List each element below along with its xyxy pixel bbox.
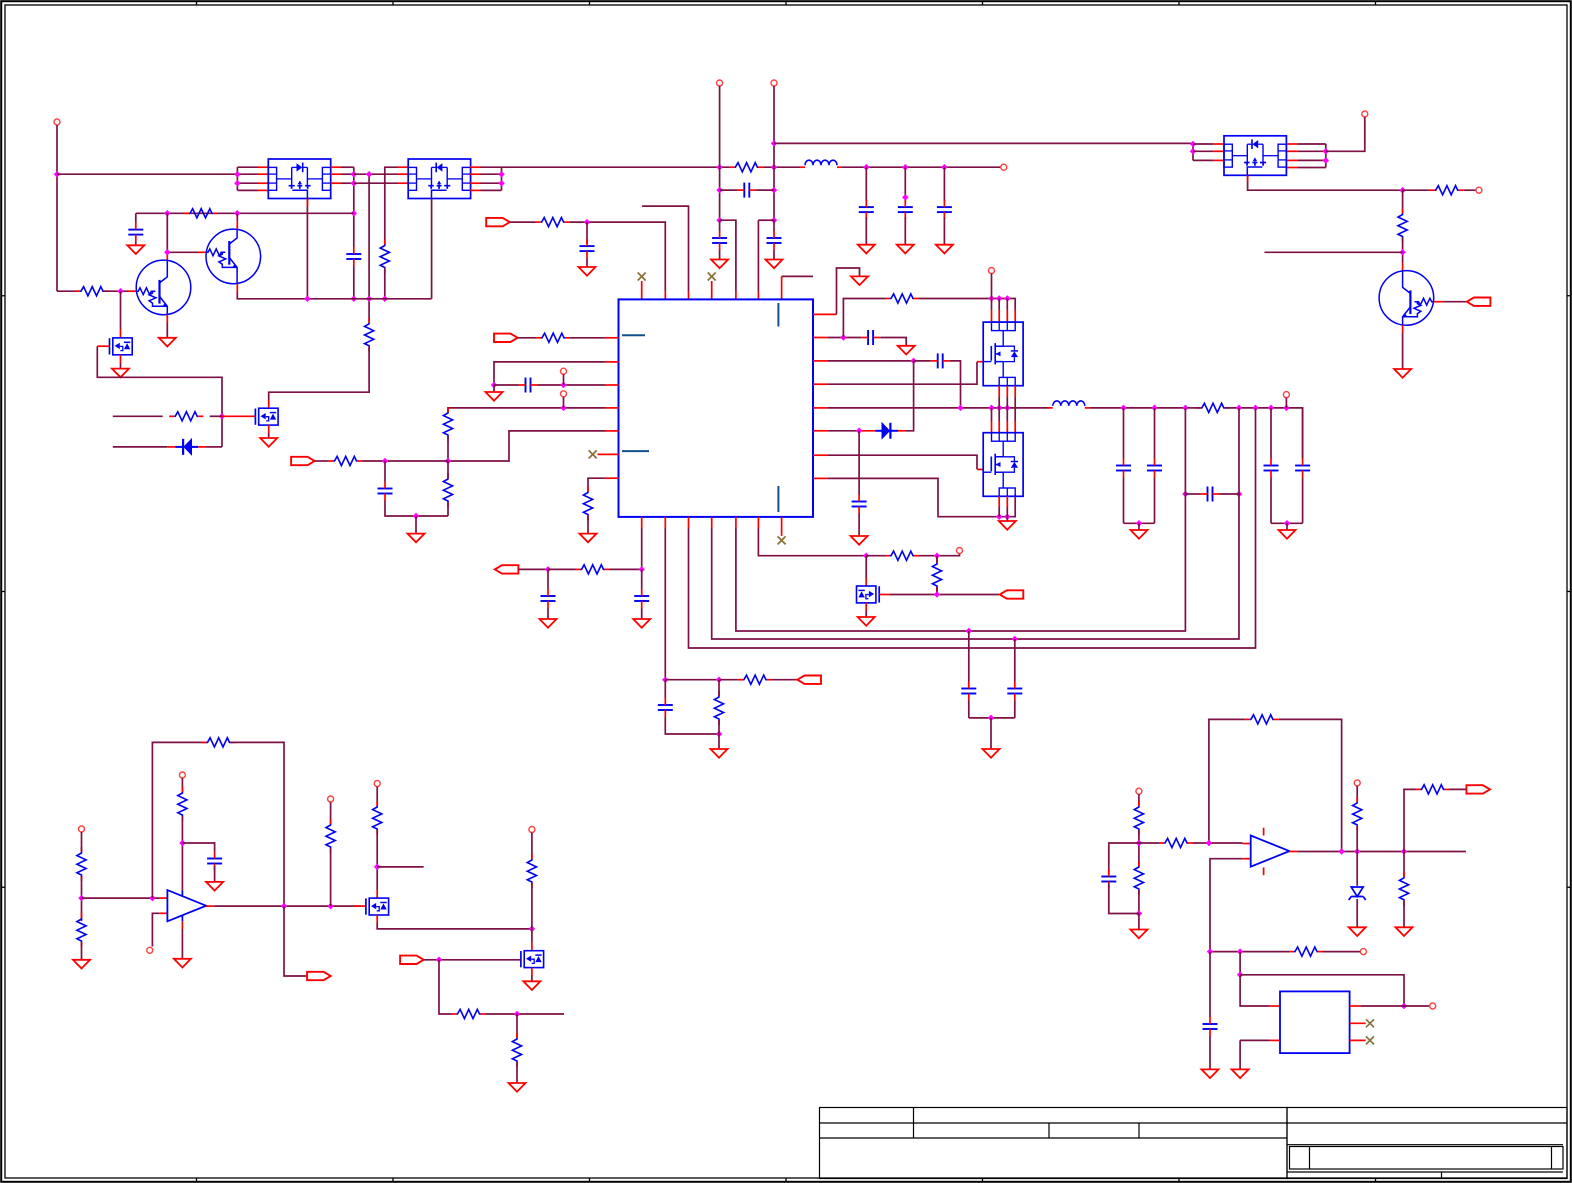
wire V2 top lead2 [1006,408,1008,421]
wire R pin1 net [1361,1005,1404,1007]
pin FET3 source pin [865,603,867,611]
wire mid rail 3 [842,166,1001,168]
wire long top rail [774,142,1193,144]
resistor R27 [326,824,335,848]
wire Q1 base feed [57,290,80,292]
junction J78 [374,864,381,871]
wire bootstrap net [843,299,885,338]
wire fb cap row a [1185,493,1200,495]
wire row5 feed [315,460,329,462]
wire Q2 base link [167,251,198,253]
wire B4 net [712,408,1239,639]
wire decap col 0 [865,167,867,202]
wire FET1 drain [120,291,122,329]
junction J65 [716,676,723,683]
ground GND14 [851,536,868,545]
capacitor C11 [852,501,867,503]
junction J10 [382,296,389,303]
wire module2 bottom pin drop [431,199,433,299]
ground GND1 [127,245,144,254]
ground GND26 [523,981,540,990]
junction J24 [771,187,778,194]
inductor L1 [805,160,837,165]
pin V2 bottom pin2 [1006,496,1008,507]
junction J34 [560,382,567,389]
pin IC R pin1 [813,337,828,339]
wire P1 drop [56,125,58,291]
wire cap pair 0 colB low [1154,478,1156,524]
port P15 [495,565,519,573]
junction J4 [351,171,358,178]
wire module3 rlead0 [1297,143,1326,145]
wire L pin2 gnd [1239,1040,1241,1069]
pin IC top pin2 [664,292,666,300]
wire C21 low [1014,701,1016,718]
wire c24 col [1209,952,1211,1017]
ground GND25 [174,959,191,968]
wire R22 lo [936,587,938,595]
pin IC B pin7 [781,517,783,536]
junction J50 [1182,405,1189,412]
wire P10 stem [563,374,565,385]
IC inner tick 4 [777,486,779,512]
junction J60 [1182,491,1189,498]
port P20 [147,947,153,953]
wire B6 net [758,528,866,556]
wire diode loop [906,361,914,431]
wire row 1014 [486,1013,565,1015]
pin opamp2 out [1289,851,1297,853]
junction J69 [863,552,870,559]
pin module1 right pin2 [331,173,341,175]
resistor R14 [443,478,452,502]
port P30 [1360,949,1366,955]
title block [820,1108,1568,1179]
wire R10 col bot [1402,238,1404,263]
mosfet module U1 [268,159,330,199]
wire C17 low [547,608,549,619]
junction J29 [1323,148,1330,155]
wire FET gate net [97,346,222,447]
mosfet module U2 [408,159,470,199]
wire cap pair 0 link [1124,522,1155,524]
wire row1 wire [518,337,536,339]
capacitor C9 [867,330,869,345]
wire vcc cap low [214,866,216,882]
wire row1r b [880,338,906,346]
junction J90 [1237,972,1244,979]
junction J37 [382,458,389,465]
wire col x330 [330,802,332,824]
junction J23 [771,140,778,147]
pin IC R pin7 [813,477,828,479]
wire C8 low [385,501,448,517]
wire col x439 [439,960,452,1014]
wire V1 top lead1 [998,299,1000,311]
ground GND19 [633,619,650,628]
pin opamp vee pin [181,921,183,929]
pin module2 right pin2 [470,173,480,175]
junction J83 [1136,910,1143,917]
wire gnd stem [493,385,495,392]
resistor R30 [457,1009,481,1018]
wire gate row3 [424,959,521,961]
junction J18 [304,296,311,303]
wire module1 bottom pin drop [306,199,308,299]
wire fb loop [152,742,206,898]
wire FET2 source w [268,433,270,438]
wire row7 net [588,478,605,491]
wire module3 rlead3 [1297,167,1326,169]
pin IC B pin5 [735,517,737,528]
wire module1 rlead0 [341,166,354,168]
pin module1 right pin3 [331,182,341,184]
port P9 [494,334,518,342]
pin IC top pin3 [688,292,690,300]
wire port branch [284,906,307,976]
pin module2 left pin2 [398,173,408,175]
wire fb2 loop [1209,719,1245,843]
junction J42 [1004,295,1011,302]
resistor R4 [189,209,213,218]
pin module3 right pin1 [1287,143,1297,145]
wire port row2 [570,222,666,292]
transistor Q3 [1379,271,1434,326]
pin FET3 drain pin [865,578,867,586]
wire to port2 [1464,189,1476,191]
wire FET1 source w [120,363,122,369]
capacitor C5 [767,237,782,239]
wire decap col low 1 [904,217,906,245]
wire decap col low 0 [865,217,867,245]
wire col x531 low [531,883,533,943]
junction J67 [1012,636,1019,643]
ground GND27 [509,1083,526,1092]
diode D2 [882,423,890,439]
resistor R19 [743,675,767,684]
wire module3 llead2 [1193,159,1214,161]
wire P4 drop [773,86,775,220]
wire rowB1 c [610,568,642,570]
wire V2 bottom lead0 [998,507,1000,517]
junction J43 [910,358,917,365]
pin FET2 source pin [268,425,270,433]
junction J8 [366,171,373,178]
ground GND5 [711,260,728,269]
pin module1 right pin1 [331,166,341,168]
wire row6r net [828,455,977,469]
wire mid pair link [969,717,1015,719]
resistor R25 [207,738,231,747]
pin Q2 collector pin [236,221,238,229]
wire cap pair 1 colA [1270,408,1272,459]
port P13 [989,268,995,274]
capacitor C12 [1116,465,1131,467]
wire col x531 [531,833,533,860]
wire V1 top lead0 [991,299,993,311]
wire cap pair 0 gstem [1138,523,1140,530]
wire row2r b [914,360,931,362]
pin IC L pin2 [605,361,619,363]
wire row 951 [1210,951,1289,953]
ground GND16 [1131,530,1148,539]
pin IC R pin4 [813,407,828,409]
junction J89 [1237,948,1244,955]
junction J35 [560,405,567,412]
pin module3 left pin1 [1214,143,1224,145]
capacitor C20 [961,688,976,690]
pin module1 pin2 lead [258,173,268,175]
wire rcol dn2 [1403,901,1405,928]
wire module1 rlead1 [341,173,354,175]
wire R14 links [447,461,449,478]
no-connect NC4 [778,536,786,544]
wire net B to Q-FET [269,347,369,400]
junction J77 [327,903,334,910]
wire bias cap drop [135,213,137,222]
pin IC B pin1 [641,517,643,528]
port P21 [179,772,185,778]
wire fb2 loop b [1279,719,1342,851]
wire div top [81,832,83,852]
capacitor C3 [743,183,745,198]
resistor R8 [541,218,565,227]
junction J45 [988,405,995,412]
wire R22 hi [936,556,938,563]
wire gnd stem4 [718,734,720,749]
pin opamp2 +in [1243,843,1251,845]
wire col x330 low [330,848,332,906]
pin Q3 emitter pin [1402,325,1404,333]
port P29 [1466,785,1490,793]
wire C21 col [1014,639,1016,682]
pin module3 right pin3 [1287,159,1297,161]
wire cap pair 0 colB [1154,408,1156,459]
pin FETB source pin [531,968,533,975]
ground GND28 [1130,930,1147,939]
wire gnd stem5 [990,718,992,749]
wire module1 left bundle [236,167,238,190]
pin IC top pin7 [781,276,783,299]
resistor R29 [527,859,536,883]
transistor Q5 [110,338,133,355]
pin D1 anode pin [167,446,175,448]
wire module1 lead3 [237,189,258,191]
ground GND31 [1202,1069,1219,1078]
IC inner tick 2 [622,450,649,452]
junction J31 [1399,187,1406,194]
wire P11 stem [563,397,565,408]
wire B3 net [689,408,1256,648]
junction J85 [1338,848,1345,855]
wire P3 drop [719,86,721,220]
wire col x377 [376,787,378,807]
wire row4 net [448,408,605,412]
capacitor C6 [580,245,595,247]
pin D2 cathode pin [898,430,906,432]
wire row7r net [828,478,1015,516]
wire C4 low [719,250,721,260]
pin module1 pin3 lead [258,182,268,184]
wire C17 col [547,569,549,589]
pin V1 top pin2 [998,310,1000,322]
wire C8 col [384,461,386,482]
wire out2 row [1297,851,1466,853]
pin IC top pin1 [641,281,643,299]
junction J51 [1236,405,1243,412]
wire cap pair 0 colA low [1123,478,1125,524]
port P2 [1001,164,1007,170]
wire rowB6 c [919,554,960,556]
wire V1 bottom lead0 [998,397,1000,408]
zener diode D3 [1351,887,1363,897]
IC U9 [1280,991,1350,1053]
resistor R18 [581,565,605,574]
junction J40 [988,295,995,302]
pin V1 bottom pin3 [1014,386,1016,397]
wire zcol dn2 [1356,899,1358,927]
junction J20 [219,413,226,420]
resistor R31 [512,1038,521,1062]
transistor Q6 [255,408,278,425]
wire main rail3 [1225,408,1303,458]
junction J2 [234,171,241,178]
pin module1 pin1 lead [258,166,268,168]
ground GND12 [851,276,868,285]
pin module3 bottom pin [1247,175,1249,182]
wire V1 bottom lead2 [1014,397,1016,408]
pin Q1 collector pin [166,253,168,260]
junction J1 [54,171,61,178]
capacitor C31a [898,206,913,208]
wire decap col 1 [904,167,906,202]
wire cap2 branch [1109,843,1139,875]
junction J61 [1236,491,1243,498]
pin IC R pin5 [813,430,828,432]
wire net C lower [384,268,386,299]
wire diode row [113,446,167,448]
wire fb cap row b [1220,493,1240,495]
port P4 [771,80,777,86]
wire stub row [1264,251,1402,253]
pin FET1 gate lead [97,345,109,347]
wire Q2 emitter w [237,292,431,299]
junction J28 [1190,148,1197,155]
mosfet module U3 [1224,136,1286,176]
capacitor C30a [859,206,874,208]
port P24 [374,781,380,787]
pin IC R pin6 [813,454,828,456]
pin FETA source pin [376,915,378,923]
junction J16 [234,210,241,217]
pin V2 bottom pin1 [998,496,1000,507]
junction J5 [351,180,358,187]
resistor R32 [1250,715,1274,724]
wire R14 low [447,502,449,516]
ground GND29 [1349,927,1366,936]
ground GND9 [486,392,503,401]
wire V2 top lead3 [1014,408,1016,421]
junction J21 [716,187,723,194]
capacitor C19 [658,704,673,706]
wire row7 low [587,516,589,534]
wire B2 drop [664,528,666,680]
capacitor C13 [1147,465,1162,467]
junction J62 [545,566,552,573]
junction J68 [966,628,973,635]
wire P6 drop [1326,117,1365,151]
pin opamp out [206,905,214,907]
wire cap pair 1 colB low [1302,478,1304,524]
capacitor C21 [1007,688,1022,690]
pin miniIC R pin3 [1350,1039,1366,1041]
pin Q3 base pin [1434,301,1444,303]
resistor R22 [932,563,941,587]
wire vcc col2 [181,816,183,890]
junction J91a [902,164,909,171]
wire pin3 stub [642,206,688,292]
pin FET1 drain pin [120,329,122,338]
wire fb loop b [231,742,285,906]
wire -in net [152,913,159,946]
wire row3 net a [494,384,519,386]
pin IC R pin0 [813,313,837,315]
wire main rail25 [1190,407,1201,409]
ground GND22 [983,749,1000,758]
wire C11 col [858,431,860,495]
port P22 [307,972,331,980]
wire row2 link [354,173,398,175]
junction J7 [351,296,358,303]
wire pin0 gnd net [837,268,860,314]
op-amp power ticks [181,890,183,896]
wire Q1 base feed 2 [104,290,128,292]
wire loop net [1239,952,1241,975]
wire V2 top lead0 [991,408,993,421]
junction J87 [1401,848,1408,855]
wire C18 low [641,608,643,619]
junction J86 [1354,848,1361,855]
wire module3 rlead1 [1297,150,1326,152]
op-amp U7 [167,890,206,921]
wire vcc cap branch [182,843,214,852]
pin IC top pin5 [735,292,737,300]
pin V1 top pin3 [1006,310,1008,322]
wire rowB1 b [548,568,576,570]
pin IC L pin5 [605,430,619,432]
pin module2 right pin3 [470,182,480,184]
ground GND7 [579,267,596,276]
junction J44 [957,405,964,412]
wire FET3 drain [865,556,867,578]
wire row2r c [950,361,961,408]
wire row5r net [828,430,859,432]
resistor R20 [714,696,723,720]
capacitor C17 [541,595,556,597]
wire module2 rlead1 [481,173,502,175]
junction J91 [1401,1003,1408,1010]
IC U4 [619,299,814,517]
wire module1 lead1 [237,173,258,175]
inductor L2 [1053,401,1085,406]
wire port row [510,221,536,223]
ground GND32 [1232,1069,1249,1078]
wire rowB2 c [772,679,798,681]
wire vcc col [181,778,183,792]
resistor R35 [1164,838,1188,847]
pin V2 top pin1 [991,421,993,433]
pin module1 pin4 lead [258,189,268,191]
